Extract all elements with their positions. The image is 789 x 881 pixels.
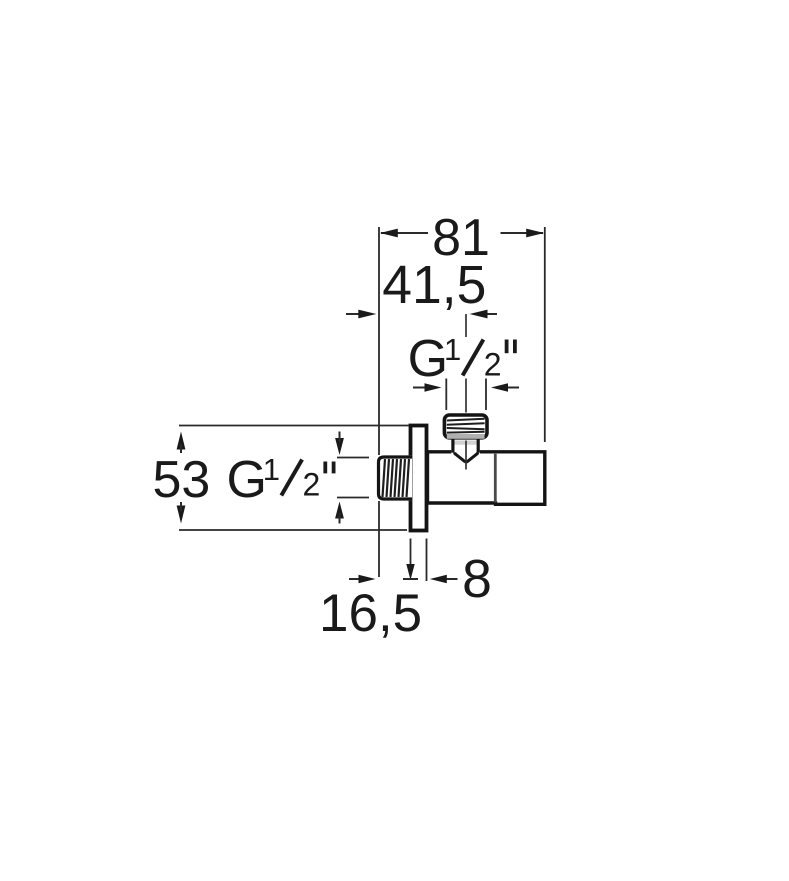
svg-text:8: 8 bbox=[462, 550, 492, 609]
thread OD dimension arrows (top) bbox=[413, 383, 519, 391]
svg-text:41,5: 41,5 bbox=[382, 256, 486, 315]
dimension 53 arrows bbox=[177, 432, 186, 524]
dimension 41,5 arrows bbox=[346, 310, 497, 319]
body/outlet divider bbox=[494, 454, 497, 503]
label G1/2 top bbox=[408, 330, 515, 388]
label G1/2 left bbox=[227, 451, 334, 509]
flange thickness extension lines (bottom) bbox=[411, 539, 427, 582]
dimension 8 arrow left bbox=[443, 578, 458, 580]
thread OD extension lines (left) bbox=[337, 458, 369, 498]
svg-text:G: G bbox=[227, 451, 267, 509]
thread OD extension lines (top) bbox=[446, 379, 486, 411]
valve body and outlet outline bbox=[428, 452, 545, 505]
svg-text:1: 1 bbox=[444, 332, 461, 367]
handle neck bbox=[451, 439, 480, 454]
dimension 81 arrowheads bbox=[380, 229, 398, 238]
center line of handle bbox=[465, 314, 467, 470]
thread OD dimension arrows (left) bbox=[335, 432, 344, 524]
inlet thread hatch lines bbox=[383, 459, 410, 497]
svg-text:2: 2 bbox=[303, 467, 321, 503]
extension line right (body end x=544.8) bbox=[544, 227, 546, 442]
handle cap bbox=[444, 415, 487, 438]
extension line left (wall face x=379) bbox=[378, 227, 380, 577]
svg-text:16,5: 16,5 bbox=[319, 584, 422, 643]
svg-text:1: 1 bbox=[263, 452, 280, 487]
svg-text:2: 2 bbox=[484, 347, 502, 383]
dimension 81 line bbox=[381, 232, 543, 234]
handle cap knurl lines bbox=[447, 419, 485, 433]
handle cap shading band bbox=[447, 434, 485, 439]
wall flange plate bbox=[411, 426, 427, 531]
svg-text:G: G bbox=[408, 330, 448, 388]
dimension 53 extension lines bbox=[179, 426, 409, 531]
svg-text:53: 53 bbox=[153, 451, 211, 509]
valve stem pointer bbox=[455, 452, 478, 462]
inlet thread G1/2 body bbox=[377, 455, 412, 500]
dimension 16,5 arrow right bbox=[349, 578, 363, 580]
dimension 16,5 arrow down bbox=[406, 564, 414, 580]
